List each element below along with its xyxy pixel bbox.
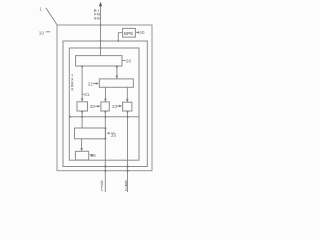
outer block 10 bbox=[57, 25, 152, 171]
block 31 (small box A) bbox=[77, 102, 88, 111]
arrowhead into box 22 bbox=[116, 76, 119, 79]
arrowhead into box C bbox=[126, 99, 129, 102]
block 32 (small box B) bbox=[101, 102, 109, 111]
junction dot: box20 right leg bbox=[116, 66, 118, 68]
arrowhead into box A bbox=[81, 98, 84, 101]
tick for label 31 bbox=[82, 93, 84, 95]
junction dot: divider x C-line bbox=[127, 116, 129, 118]
block 22 (second wide box) bbox=[99, 79, 133, 87]
wire: box20 right leg down to box 22 bbox=[116, 66, 118, 78]
svg-text:1: 1 bbox=[40, 7, 43, 12]
svg-text:33: 33 bbox=[112, 104, 118, 109]
arrow leader for label 40 bbox=[136, 31, 139, 33]
wire: box24 down to box 26 bbox=[81, 139, 83, 151]
junction dot: B-line x outer bottom bbox=[104, 170, 106, 172]
block 26 (small bottom box) bbox=[75, 151, 88, 160]
arrow leader for label 26 bbox=[90, 154, 93, 156]
junction dot: box20 left leg bbox=[81, 66, 83, 68]
svg-text:X: X bbox=[71, 87, 74, 91]
arrow leader for label 22 bbox=[93, 83, 98, 85]
tick for label 10 bbox=[46, 31, 50, 33]
junction dot: box24 top-right corner bbox=[104, 127, 106, 129]
block 40 (top-right box) bbox=[123, 28, 136, 37]
junction dot: B-line x rect2 bottom bbox=[104, 165, 106, 167]
leader diagonal to outer block bbox=[46, 8, 57, 25]
junction dot: box B bottom bbox=[104, 111, 106, 113]
arrowhead top of input wire bbox=[99, 2, 102, 7]
wire: box20 left leg down to box A bbox=[81, 66, 83, 101]
arrowhead of leader 26 bbox=[89, 154, 92, 156]
junction dot: input wire x rect3 top bbox=[100, 47, 102, 49]
junction dot: input wire x rect2 top bbox=[100, 40, 102, 42]
arrowhead into box 26 bbox=[80, 148, 83, 151]
block 33 (small box C) bbox=[123, 102, 132, 111]
arrowhead of leader 32 bbox=[97, 105, 100, 107]
junction dot: divider left end bbox=[69, 116, 71, 118]
wire: box C down through divider to bottom output bbox=[127, 111, 129, 192]
wire: box A down to box 24 bbox=[81, 111, 83, 128]
svg-text:10: 10 bbox=[39, 31, 45, 36]
junction dot: box C bottom bbox=[127, 111, 129, 113]
wire from box 40 to second rect top bbox=[118, 33, 122, 41]
svg-text:40: 40 bbox=[139, 30, 145, 35]
junction dot: box A bottom bbox=[81, 111, 83, 113]
wire: box B down through divider to bottom output bbox=[104, 111, 106, 192]
tick for label 20 bbox=[122, 59, 126, 61]
svg-text:20: 20 bbox=[126, 58, 132, 63]
junction dot: box40 wire x rect2 top bbox=[117, 40, 119, 42]
divider line inside third rect bbox=[69, 116, 139, 118]
svg-text:2: 2 bbox=[125, 188, 127, 192]
block 14 (third rect) bbox=[69, 48, 139, 160]
arrowhead of leader 24 bbox=[107, 132, 110, 134]
arrow leader for label 32 bbox=[95, 105, 100, 107]
junction dot: box24 bottom-right corner bbox=[104, 138, 106, 140]
input wire (antenna line) bbox=[100, 4, 102, 56]
block 12 (second rect) bbox=[63, 41, 147, 167]
arrow leader for label 24 bbox=[111, 132, 115, 134]
wire: box22 left leg down to box B bbox=[104, 87, 106, 101]
junction dot: divider x B-line bbox=[104, 116, 106, 118]
svg-text:32: 32 bbox=[90, 104, 96, 109]
arrowhead of leader 40 bbox=[136, 31, 139, 33]
arrowhead into box B bbox=[104, 99, 107, 102]
arrow leader for label 33 bbox=[117, 105, 121, 107]
junction dot: C-line x outer bottom bbox=[126, 170, 128, 172]
arrowhead of leader 33 bbox=[119, 105, 122, 107]
junction dot: C-line x rect2 bottom bbox=[126, 165, 128, 167]
block 20 (top wide box) bbox=[76, 56, 122, 66]
svg-text:1: 1 bbox=[101, 188, 103, 192]
junction dot: input wire x outer top bbox=[100, 24, 102, 26]
arrowhead of leader 22 bbox=[96, 82, 99, 84]
block 24 (bottom wide box) bbox=[75, 128, 106, 139]
svg-text:24: 24 bbox=[111, 133, 117, 138]
svg-text:31: 31 bbox=[84, 92, 90, 97]
junction dot: divider x A-line bbox=[81, 116, 83, 118]
svg-text:22: 22 bbox=[88, 82, 94, 87]
svg-text:26: 26 bbox=[91, 153, 97, 158]
wire: box22 right leg down to box C bbox=[126, 87, 128, 101]
svg-text:GPS: GPS bbox=[124, 31, 133, 36]
svg-text:G: G bbox=[97, 16, 100, 20]
